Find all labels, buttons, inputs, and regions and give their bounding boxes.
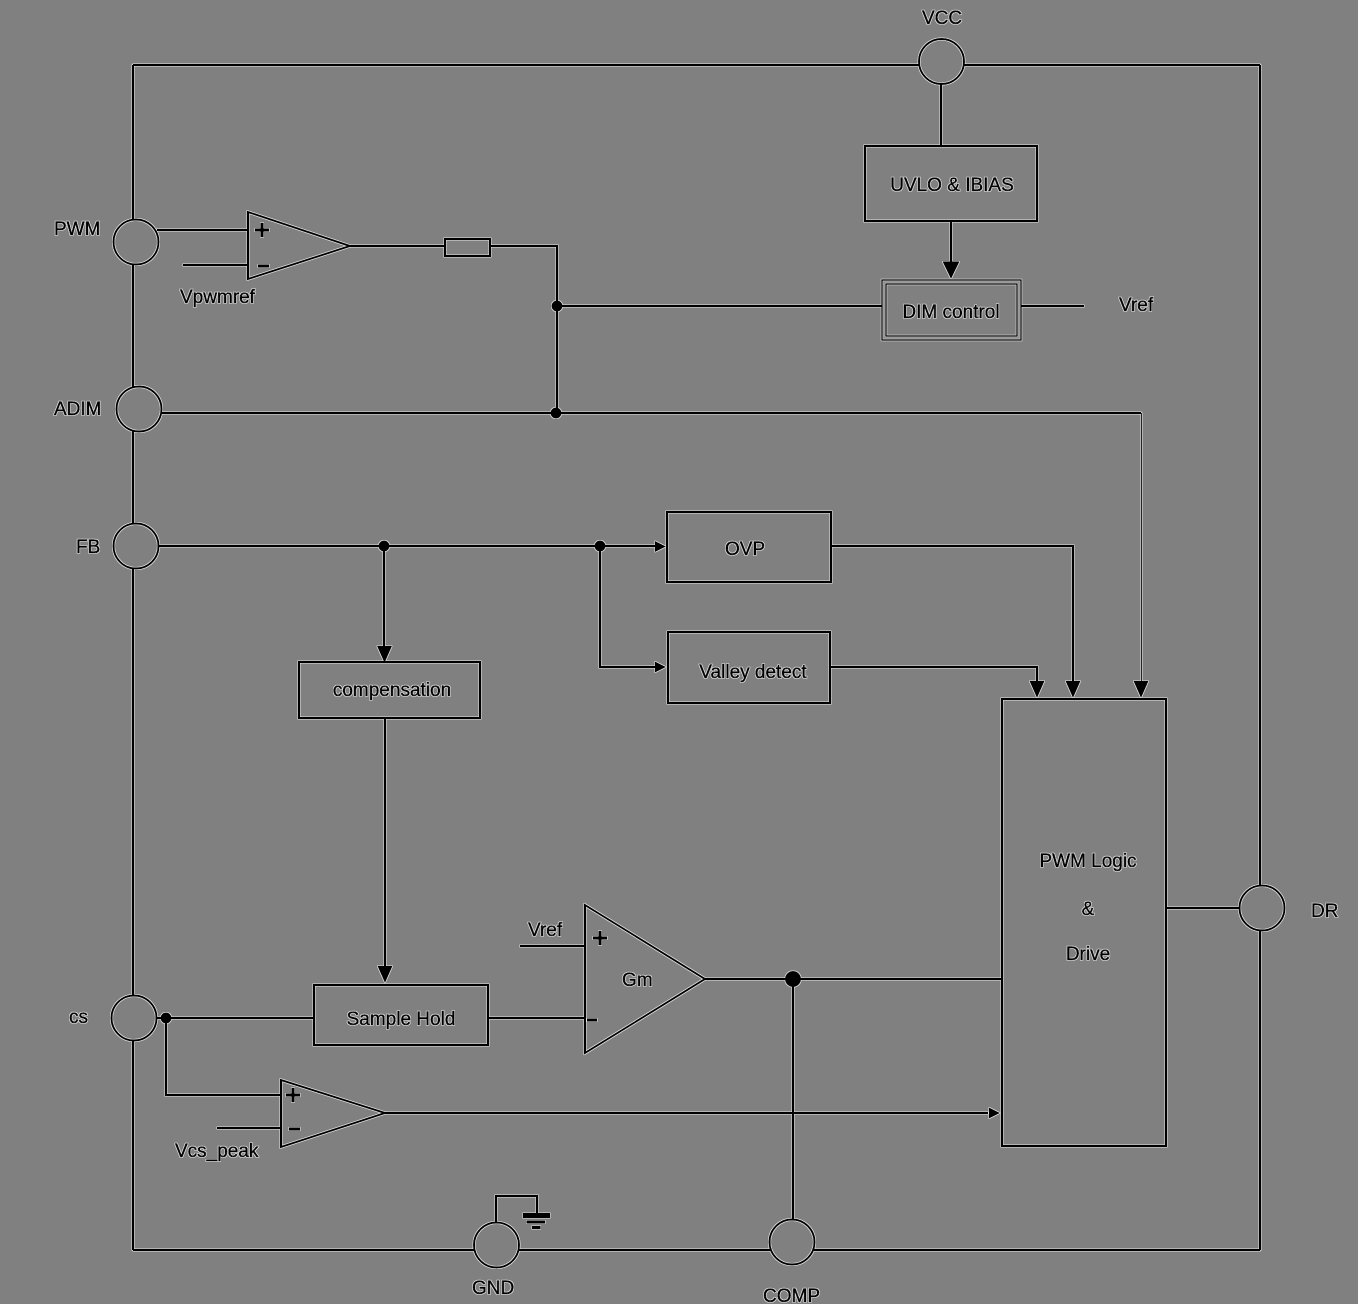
ground symbol xyxy=(523,1216,550,1228)
wire node to DIM control input xyxy=(557,305,882,307)
wire compensation output down to Sample Hold with arrow xyxy=(384,718,386,966)
wire DIM control output to Vref xyxy=(1021,305,1084,307)
svg-text:PWM: PWM xyxy=(54,219,100,240)
pin PWM xyxy=(114,220,159,265)
svg-text:OVP: OVP xyxy=(725,539,765,560)
svg-text:FB: FB xyxy=(76,537,100,558)
wire Vpwmref to comparator - input xyxy=(183,264,248,266)
pin FB xyxy=(114,524,159,569)
junction node on resistor line to DIM control xyxy=(552,301,563,312)
wire VCC pin to UVLO block xyxy=(940,84,942,146)
svg-text:VCC: VCC xyxy=(922,8,962,29)
svg-text:compensation: compensation xyxy=(333,680,451,701)
pin CS xyxy=(112,996,157,1041)
svg-text:ADIM: ADIM xyxy=(54,399,102,420)
comparator U1 PWM dimming xyxy=(248,212,350,279)
block OVP xyxy=(667,512,831,582)
svg-text:Valley detect: Valley detect xyxy=(699,662,807,683)
svg-text:DIM control: DIM control xyxy=(902,302,999,323)
wire Valley detect output to PWM Logic with arrow xyxy=(831,667,1037,681)
block DIM control xyxy=(882,280,1021,340)
svg-text:Vcs_peak: Vcs_peak xyxy=(175,1141,259,1162)
wire FB net horizontal with arrow into OVP xyxy=(158,545,655,547)
svg-text:PWM Logic: PWM Logic xyxy=(1039,851,1136,872)
wire comparator output to resistor xyxy=(350,245,445,247)
junction node CS branch xyxy=(161,1013,172,1024)
svg-text:&: & xyxy=(1082,899,1095,920)
block Valley detect xyxy=(668,632,830,703)
resistor xyxy=(445,239,490,256)
wire Gm output to PWM Logic xyxy=(705,978,1002,980)
comparator U2 peak current xyxy=(281,1080,385,1147)
svg-text:Gm: Gm xyxy=(622,970,653,991)
pin VCC xyxy=(919,39,964,84)
wire vertical from resistor corner down to ADIM net xyxy=(556,245,558,413)
svg-text:GND: GND xyxy=(472,1278,514,1299)
op-amp Gm error amplifier xyxy=(585,905,705,1053)
svg-text:Drive: Drive xyxy=(1066,944,1110,965)
wire PWM pin to comparator + input xyxy=(157,229,248,231)
pin DR xyxy=(1240,886,1285,931)
wire FB branch down to compensation with arrow xyxy=(383,546,385,646)
svg-text:DR: DR xyxy=(1311,901,1338,922)
wire resistor to corner node xyxy=(490,245,557,247)
block Sample Hold xyxy=(314,985,488,1045)
svg-text:Sample Hold: Sample Hold xyxy=(347,1009,456,1030)
block PWM Logic & Drive xyxy=(1002,699,1166,1146)
junction node COMP on Gm output xyxy=(785,971,801,987)
wire CS pin to Sample Hold xyxy=(157,1017,314,1019)
pin ADIM xyxy=(117,387,162,432)
wire UVLO to DIM control with arrow xyxy=(950,221,952,262)
junction node on ADIM net xyxy=(551,408,562,419)
pin COMP xyxy=(770,1220,815,1265)
wire COMP node down to COMP pin xyxy=(792,979,794,1219)
wire Vref to Gm + input xyxy=(520,945,585,947)
wire ADIM net down to PWM Logic with arrow xyxy=(1141,413,1143,681)
svg-text:COMP: COMP xyxy=(763,1286,820,1304)
svg-text:Vref: Vref xyxy=(1119,295,1154,316)
junction node FB to compensation xyxy=(379,541,390,552)
wire OVP output to PWM Logic with arrow xyxy=(831,546,1073,681)
IC boundary rectangle (broken at pin circles) xyxy=(133,65,1260,1250)
wire FB branch to Valley detect with arrow xyxy=(600,546,655,667)
wire Sample Hold output to Gm - input xyxy=(488,1017,585,1019)
svg-text:Vpwmref: Vpwmref xyxy=(180,287,256,308)
wire ADIM net horizontal xyxy=(162,412,1141,414)
wire CS branch down to peak comparator + input xyxy=(166,1018,281,1095)
wire PWM Logic output to DR pin xyxy=(1166,907,1239,909)
pin GND xyxy=(474,1223,519,1268)
svg-text:UVLO & IBIAS: UVLO & IBIAS xyxy=(890,175,1014,196)
wire Vcs_peak to comparator - input xyxy=(217,1127,281,1129)
wire peak comparator output to PWM Logic with arrow xyxy=(385,1112,988,1114)
block UVLO & IBIAS xyxy=(865,146,1037,221)
wire GND pin to ground symbol xyxy=(496,1196,537,1222)
svg-text:Vref: Vref xyxy=(528,920,563,941)
junction node FB to valley detect xyxy=(595,541,606,552)
block compensation xyxy=(299,662,480,718)
svg-text:cs: cs xyxy=(69,1007,88,1028)
